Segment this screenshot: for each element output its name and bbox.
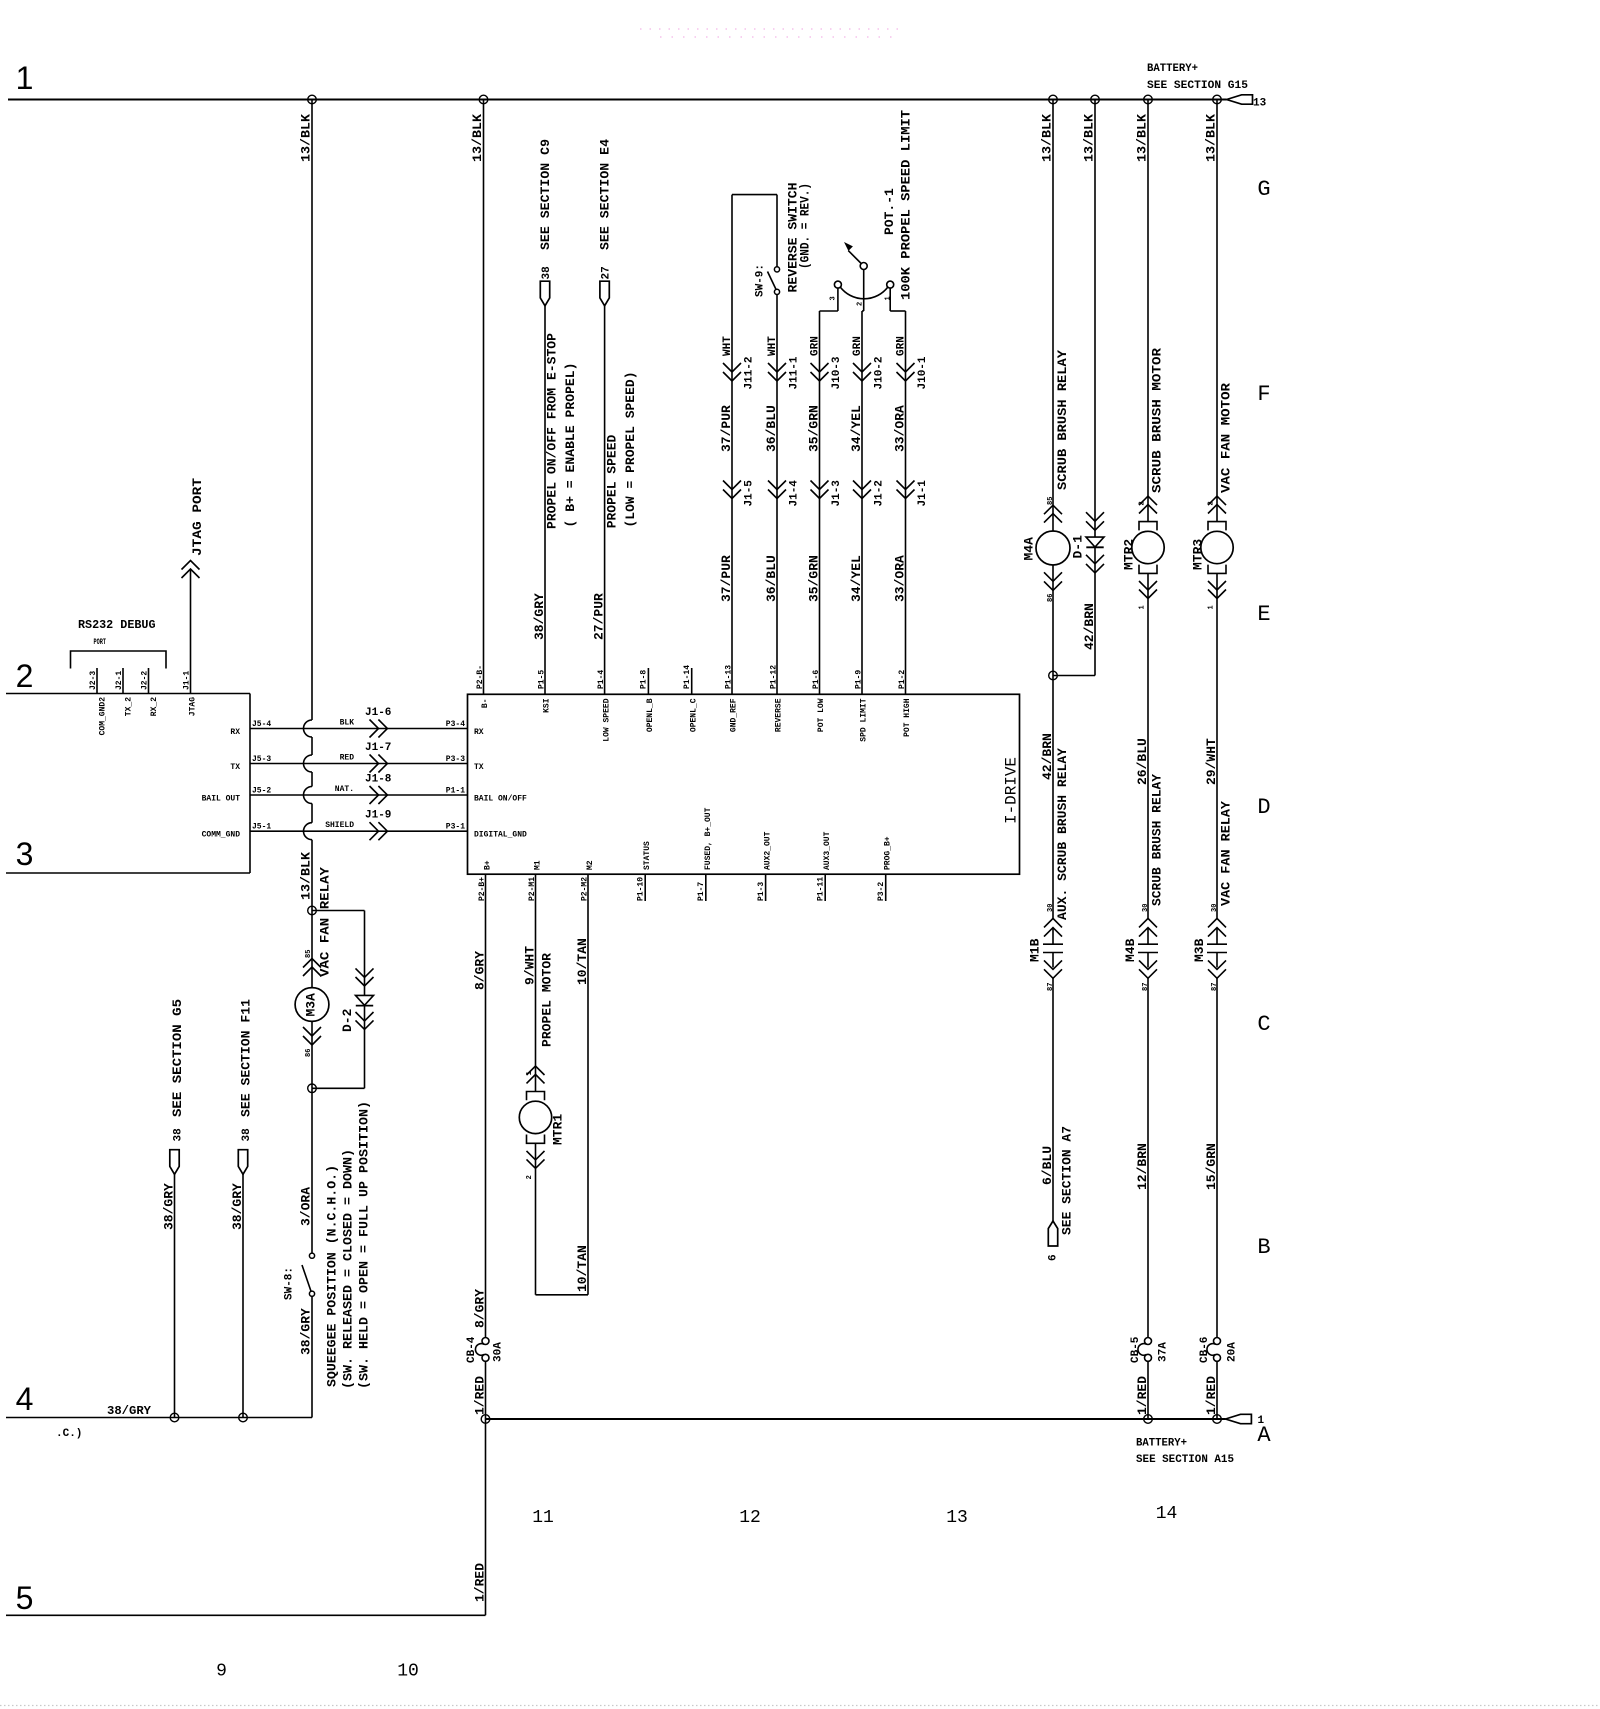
svg-text:J1-8: J1-8 bbox=[365, 774, 392, 786]
svg-text:30: 30 bbox=[1047, 904, 1055, 912]
svg-text:MTR3: MTR3 bbox=[1191, 539, 1206, 570]
svg-text:D: D bbox=[1257, 795, 1270, 820]
svg-text:TX: TX bbox=[474, 763, 484, 772]
svg-text:13/BLK: 13/BLK bbox=[299, 852, 314, 900]
svg-text:OPENL_C: OPENL_C bbox=[689, 698, 698, 732]
svg-text:26/BLU: 26/BLU bbox=[1135, 738, 1150, 785]
svg-text:MTR2: MTR2 bbox=[1122, 539, 1137, 570]
svg-text:85: 85 bbox=[1047, 497, 1055, 505]
svg-text:38: 38 bbox=[541, 266, 553, 280]
svg-text:37/PUR: 37/PUR bbox=[719, 405, 734, 452]
svg-text:GRN: GRN bbox=[852, 336, 864, 356]
svg-text:I-DRIVE: I-DRIVE bbox=[1003, 757, 1021, 824]
svg-text:9/WHT: 9/WHT bbox=[523, 946, 538, 985]
svg-text:PROPEL MOTOR: PROPEL MOTOR bbox=[540, 953, 555, 1047]
svg-text:P1-8: P1-8 bbox=[640, 670, 649, 689]
svg-text:E: E bbox=[1257, 602, 1270, 627]
svg-text:38: 38 bbox=[241, 1128, 253, 1142]
svg-text:P3-4: P3-4 bbox=[446, 720, 465, 729]
svg-text:P3-3: P3-3 bbox=[446, 755, 465, 764]
svg-text:AUX3_OUT: AUX3_OUT bbox=[823, 831, 832, 870]
svg-text:J10-3: J10-3 bbox=[831, 356, 843, 389]
svg-text:SHIELD: SHIELD bbox=[325, 821, 354, 830]
svg-text:1/RED: 1/RED bbox=[473, 1563, 488, 1602]
svg-text:30: 30 bbox=[1211, 904, 1219, 912]
svg-text:SCRUB BRUSH RELAY: SCRUB BRUSH RELAY bbox=[1150, 774, 1165, 906]
svg-text:SCRUB BRUSH MOTOR: SCRUB BRUSH MOTOR bbox=[1150, 348, 1165, 493]
svg-text:1: 1 bbox=[16, 60, 34, 96]
svg-text:PROPEL SPEED: PROPEL SPEED bbox=[605, 434, 620, 528]
svg-text:SEE SECTION G5: SEE SECTION G5 bbox=[170, 999, 185, 1117]
svg-text:G: G bbox=[1257, 177, 1270, 202]
svg-text:37/PUR: 37/PUR bbox=[719, 555, 734, 602]
svg-text:SEE SECTION C9: SEE SECTION C9 bbox=[538, 139, 553, 250]
svg-text:6: 6 bbox=[1048, 1254, 1060, 1261]
svg-text:86: 86 bbox=[305, 1049, 313, 1057]
svg-text:MTR1: MTR1 bbox=[551, 1114, 566, 1145]
svg-text:2: 2 bbox=[16, 658, 34, 694]
svg-text:30: 30 bbox=[1142, 904, 1150, 912]
svg-text:KSI: KSI bbox=[543, 698, 552, 713]
svg-text:FUSED, B+_OUT: FUSED, B+_OUT bbox=[704, 807, 713, 870]
svg-text:BATTERY+: BATTERY+ bbox=[1147, 63, 1198, 75]
svg-text:SCRUB BRUSH RELAY: SCRUB BRUSH RELAY bbox=[1055, 350, 1070, 490]
svg-text:TX_2: TX_2 bbox=[125, 697, 134, 716]
svg-text:TX: TX bbox=[230, 763, 240, 772]
svg-text:J11-1: J11-1 bbox=[789, 356, 801, 389]
svg-text:J1-6: J1-6 bbox=[365, 707, 391, 719]
svg-text:33/ORA: 33/ORA bbox=[893, 555, 908, 602]
svg-text:RX: RX bbox=[474, 728, 484, 737]
svg-text:1: 1 bbox=[1208, 605, 1216, 609]
svg-text:38/GRY: 38/GRY bbox=[230, 1183, 245, 1230]
svg-text:P1-7: P1-7 bbox=[697, 882, 706, 901]
svg-text:SEE SECTION A15: SEE SECTION A15 bbox=[1136, 1454, 1234, 1466]
svg-text:2: 2 bbox=[526, 1175, 534, 1179]
svg-text:1: 1 bbox=[526, 1071, 534, 1075]
svg-text:AUX2_OUT: AUX2_OUT bbox=[764, 831, 773, 870]
svg-text:.C.): .C.) bbox=[56, 1428, 82, 1440]
svg-text:42/BRN: 42/BRN bbox=[1040, 733, 1055, 780]
svg-text:J1-1: J1-1 bbox=[183, 671, 192, 690]
svg-text:34/YEL: 34/YEL bbox=[849, 555, 864, 602]
svg-text:1/RED: 1/RED bbox=[473, 1376, 488, 1415]
svg-text:J2-2: J2-2 bbox=[141, 671, 150, 690]
svg-text:J1-5: J1-5 bbox=[744, 480, 756, 507]
svg-text:SEE SECTION A7: SEE SECTION A7 bbox=[1060, 1126, 1075, 1235]
svg-text:WHT: WHT bbox=[767, 336, 779, 356]
svg-text:3: 3 bbox=[830, 296, 838, 300]
svg-text:P1-3: P1-3 bbox=[757, 882, 766, 901]
svg-text:13: 13 bbox=[946, 1508, 968, 1528]
svg-text:5: 5 bbox=[16, 1580, 34, 1616]
svg-text:J5-3: J5-3 bbox=[252, 755, 271, 764]
svg-text:42/BRN: 42/BRN bbox=[1082, 603, 1097, 650]
svg-text:GRN: GRN bbox=[896, 336, 908, 356]
svg-text:6/BLU: 6/BLU bbox=[1040, 1146, 1055, 1185]
svg-text:POT LOW: POT LOW bbox=[817, 698, 826, 732]
svg-text:20A: 20A bbox=[1227, 1342, 1239, 1362]
svg-text:F: F bbox=[1257, 382, 1270, 407]
svg-text:SW-8:: SW-8: bbox=[284, 1267, 296, 1300]
svg-text:RED: RED bbox=[340, 754, 355, 763]
svg-text:BAIL ON/OFF: BAIL ON/OFF bbox=[474, 795, 527, 804]
svg-text:D-1: D-1 bbox=[1071, 535, 1086, 559]
svg-text:J2-1: J2-1 bbox=[115, 671, 124, 690]
svg-text:REVERSE: REVERSE bbox=[775, 698, 784, 732]
svg-text:38: 38 bbox=[173, 1128, 185, 1142]
svg-text:M1B: M1B bbox=[1028, 938, 1043, 962]
svg-text:SW-9:: SW-9: bbox=[755, 264, 767, 297]
svg-text:30A: 30A bbox=[493, 1342, 505, 1362]
svg-text:M3A: M3A bbox=[304, 993, 319, 1017]
svg-text:POT.-1: POT.-1 bbox=[882, 188, 897, 235]
svg-text:JTAG PORT: JTAG PORT bbox=[190, 478, 205, 556]
svg-text:J10-1: J10-1 bbox=[917, 356, 929, 389]
svg-text:VAC FAN RELAY: VAC FAN RELAY bbox=[318, 867, 333, 977]
svg-text:1: 1 bbox=[1258, 1415, 1265, 1427]
svg-text:J1-4: J1-4 bbox=[789, 480, 801, 507]
svg-text:P1-10: P1-10 bbox=[637, 877, 646, 901]
svg-text:SEE SECTION G15: SEE SECTION G15 bbox=[1147, 80, 1248, 92]
svg-text:J5-1: J5-1 bbox=[252, 823, 271, 832]
svg-text:10/TAN: 10/TAN bbox=[575, 938, 590, 985]
svg-text:( B+ = ENABLE PROPEL): ( B+ = ENABLE PROPEL) bbox=[563, 363, 578, 528]
svg-text:35/GRN: 35/GRN bbox=[807, 555, 822, 602]
svg-text:15/GRN: 15/GRN bbox=[1204, 1143, 1219, 1190]
svg-text:29/WHT: 29/WHT bbox=[1204, 738, 1219, 785]
svg-text:M2: M2 bbox=[586, 860, 595, 870]
svg-text:J5-2: J5-2 bbox=[252, 787, 271, 796]
svg-text:RS232 DEBUG: RS232 DEBUG bbox=[78, 618, 156, 632]
svg-text:AUX. SCRUB BRUSH RELAY: AUX. SCRUB BRUSH RELAY bbox=[1055, 748, 1070, 920]
svg-text:GND_REF: GND_REF bbox=[730, 698, 739, 732]
svg-text:NAT.: NAT. bbox=[335, 785, 354, 794]
svg-text:38/GRY: 38/GRY bbox=[532, 593, 547, 640]
svg-text:VAC FAN RELAY: VAC FAN RELAY bbox=[1219, 801, 1234, 906]
svg-text:CB-5: CB-5 bbox=[1130, 1336, 1142, 1363]
svg-text:JTAG: JTAG bbox=[189, 697, 198, 716]
svg-text:COMM_GND: COMM_GND bbox=[202, 831, 241, 840]
svg-text:2: 2 bbox=[1139, 501, 1147, 505]
svg-text:J10-2: J10-2 bbox=[874, 356, 886, 389]
svg-text:100K PROPEL SPEED LIMIT: 100K PROPEL SPEED LIMIT bbox=[899, 110, 914, 300]
svg-text:P2-B-: P2-B- bbox=[476, 665, 485, 689]
svg-text:P1-11: P1-11 bbox=[817, 877, 826, 901]
svg-text:J1-1: J1-1 bbox=[917, 480, 929, 507]
svg-text:36/BLU: 36/BLU bbox=[764, 405, 779, 452]
svg-text:(GND. = REV.): (GND. = REV.) bbox=[798, 183, 813, 269]
svg-text:2: 2 bbox=[1208, 501, 1216, 505]
svg-text:PROPEL ON/OFF FROM E-STOP: PROPEL ON/OFF FROM E-STOP bbox=[545, 333, 560, 529]
svg-text:GRN: GRN bbox=[810, 336, 822, 356]
svg-text:38/GRY: 38/GRY bbox=[299, 1308, 314, 1355]
svg-text:(SW. RELEASED = CLOSED = DOWN): (SW. RELEASED = CLOSED = DOWN) bbox=[341, 1149, 356, 1389]
svg-text:CB-6: CB-6 bbox=[1199, 1337, 1211, 1363]
svg-text:RX_2: RX_2 bbox=[150, 697, 159, 716]
svg-text:11: 11 bbox=[532, 1508, 554, 1528]
svg-text:33/ORA: 33/ORA bbox=[893, 405, 908, 452]
svg-text:DIGITAL_GND: DIGITAL_GND bbox=[474, 831, 527, 840]
svg-text:M4B: M4B bbox=[1123, 938, 1138, 962]
svg-text:10/TAN: 10/TAN bbox=[575, 1245, 590, 1292]
svg-text:34/YEL: 34/YEL bbox=[849, 405, 864, 452]
svg-text:BLK: BLK bbox=[340, 719, 355, 728]
svg-text:P1-14: P1-14 bbox=[683, 665, 692, 689]
svg-text:WHT: WHT bbox=[722, 336, 734, 356]
svg-text:BATTERY+: BATTERY+ bbox=[1136, 1438, 1187, 1450]
svg-text:J1-3: J1-3 bbox=[831, 480, 843, 507]
svg-text:J1-2: J1-2 bbox=[874, 480, 886, 506]
svg-text:LOW SPEED: LOW SPEED bbox=[602, 698, 611, 741]
svg-text:38/GRY: 38/GRY bbox=[107, 1404, 152, 1418]
svg-text:M1: M1 bbox=[534, 860, 543, 870]
svg-text:(LOW = PROPEL SPEED): (LOW = PROPEL SPEED) bbox=[623, 372, 638, 528]
svg-text:BAIL OUT: BAIL OUT bbox=[202, 795, 241, 804]
svg-text:RX: RX bbox=[230, 728, 240, 737]
svg-text:SPD LIMIT: SPD LIMIT bbox=[860, 698, 869, 741]
svg-text:14: 14 bbox=[1156, 1504, 1178, 1524]
svg-text:M4A: M4A bbox=[1022, 537, 1037, 561]
svg-text:CB-4: CB-4 bbox=[466, 1336, 478, 1363]
svg-text:87: 87 bbox=[1142, 983, 1150, 991]
svg-text:SEE SECTION E4: SEE SECTION E4 bbox=[598, 139, 613, 250]
svg-text:87: 87 bbox=[1047, 983, 1055, 991]
svg-text:J1-7: J1-7 bbox=[365, 742, 391, 754]
svg-text:1/RED: 1/RED bbox=[1135, 1376, 1150, 1415]
svg-text:C: C bbox=[1257, 1012, 1270, 1037]
svg-text:PORT: PORT bbox=[94, 638, 107, 647]
svg-text:85: 85 bbox=[305, 950, 313, 958]
svg-text:P3-1: P3-1 bbox=[446, 823, 465, 832]
svg-text:OPENL_B: OPENL_B bbox=[646, 698, 655, 732]
svg-text:3: 3 bbox=[16, 836, 34, 872]
svg-text:D-2: D-2 bbox=[340, 1008, 355, 1032]
svg-text:J1-9: J1-9 bbox=[365, 810, 391, 822]
svg-text:27: 27 bbox=[601, 266, 613, 279]
svg-text:1/RED: 1/RED bbox=[1204, 1376, 1219, 1415]
svg-text:8/GRY: 8/GRY bbox=[473, 951, 488, 990]
svg-text:B-: B- bbox=[481, 698, 490, 708]
svg-text:12: 12 bbox=[739, 1508, 761, 1528]
svg-text:PROG_B+: PROG_B+ bbox=[884, 836, 893, 870]
svg-text:SEE SECTION F11: SEE SECTION F11 bbox=[239, 999, 254, 1117]
svg-text:8/GRY: 8/GRY bbox=[473, 1289, 488, 1328]
svg-text:COM_GND2: COM_GND2 bbox=[99, 697, 108, 736]
svg-text:SQUEEGEE POSITION (N.C.H.O.): SQUEEGEE POSITION (N.C.H.O.) bbox=[325, 1165, 340, 1387]
svg-text:3/ORA: 3/ORA bbox=[299, 1187, 314, 1226]
svg-text:B+: B+ bbox=[484, 860, 493, 870]
svg-text:1: 1 bbox=[1139, 605, 1147, 609]
svg-text:(SW. HELD = OPEN = FULL UP POS: (SW. HELD = OPEN = FULL UP POSITION) bbox=[357, 1101, 372, 1389]
svg-text:J5-4: J5-4 bbox=[252, 720, 271, 729]
svg-text:4: 4 bbox=[16, 1381, 34, 1417]
svg-text:M3B: M3B bbox=[1192, 938, 1207, 962]
svg-text:P3-2: P3-2 bbox=[877, 882, 886, 901]
svg-text:1: 1 bbox=[885, 296, 893, 300]
svg-text:38/GRY: 38/GRY bbox=[162, 1183, 177, 1230]
svg-text:27/PUR: 27/PUR bbox=[592, 593, 607, 640]
svg-text:10: 10 bbox=[397, 1662, 419, 1682]
svg-text:36/BLU: 36/BLU bbox=[764, 555, 779, 602]
svg-text:STATUS: STATUS bbox=[643, 841, 652, 870]
svg-text:9: 9 bbox=[216, 1662, 227, 1682]
svg-text:POT HIGH: POT HIGH bbox=[903, 698, 912, 737]
svg-text:86: 86 bbox=[1047, 594, 1055, 602]
svg-text:P1-1: P1-1 bbox=[446, 787, 465, 796]
svg-text:13: 13 bbox=[1253, 98, 1267, 110]
svg-text:VAC FAN MOTOR: VAC FAN MOTOR bbox=[1219, 383, 1234, 493]
svg-text:87: 87 bbox=[1211, 983, 1219, 991]
svg-text:J2-3: J2-3 bbox=[89, 671, 98, 690]
svg-text:J11-2: J11-2 bbox=[744, 356, 756, 389]
svg-text:35/GRN: 35/GRN bbox=[807, 405, 822, 452]
svg-text:37A: 37A bbox=[1158, 1342, 1170, 1362]
svg-text:12/BRN: 12/BRN bbox=[1135, 1143, 1150, 1190]
svg-text:B: B bbox=[1257, 1235, 1270, 1260]
